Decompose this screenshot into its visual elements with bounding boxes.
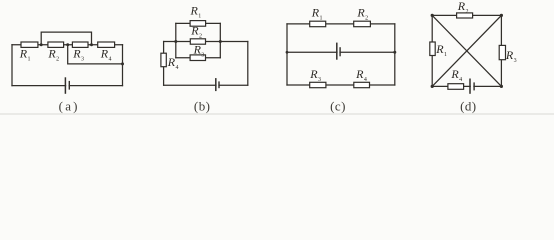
node between R3 and R4 (a) — [90, 43, 93, 46]
node between R1 and R2 (a) — [40, 43, 43, 46]
resistor R4 (c) — [354, 82, 370, 87]
battery (c) — [337, 43, 340, 60]
wire bottom (c) — [287, 84, 395, 86]
resistor R3 (a) — [72, 42, 88, 47]
wire bank left rail (b) — [175, 23, 177, 57]
node bottom-left corner (d) — [431, 85, 434, 88]
wire right rail (a) — [122, 45, 124, 86]
wire right rail (c) — [394, 24, 396, 85]
node between R2 and R3 (a) — [66, 43, 69, 46]
resistor R3 (b) — [190, 55, 205, 61]
resistor R1 (d) — [430, 42, 435, 56]
node top-left corner (d) — [431, 14, 434, 17]
battery (b) — [216, 78, 219, 91]
wire top bus (a) — [12, 44, 123, 46]
node middle branch meets right rail (c) — [393, 51, 396, 54]
wire outer left rail (b) — [163, 42, 165, 86]
resistor R2 (c) — [354, 21, 371, 27]
resistor R3 (d) — [499, 45, 505, 59]
svg-text:(a): (a) — [59, 99, 78, 114]
wire right rail (d) — [500, 15, 502, 86]
node top-right corner (d) — [500, 14, 503, 17]
wire bank right rail (b) — [219, 23, 221, 57]
wire left rail (a) — [11, 45, 13, 86]
wire left rail (c) — [286, 24, 288, 85]
wire outer right rail (b) — [247, 42, 249, 86]
wire bottom (d) — [432, 85, 501, 87]
wire R3 row (b) — [176, 57, 221, 59]
resistor R4 (d) — [448, 84, 464, 90]
resistor R1 (a) — [21, 42, 38, 47]
resistor R1 (c) — [310, 21, 326, 27]
svg-text:(b): (b) — [194, 99, 210, 114]
wire diagonal TL to BR (d) — [432, 15, 501, 86]
resistor R2 (d) — [457, 13, 473, 18]
faint page artifact line at bottom — [0, 113, 554, 115]
resistor R2 (a) — [48, 42, 64, 47]
battery (a) — [65, 77, 69, 94]
wire bottom (b) — [164, 84, 248, 86]
wire top (c) — [287, 23, 395, 25]
node underpass meets right rail (a) — [121, 62, 124, 65]
resistor R2 (b) — [190, 39, 205, 44]
node right rail meets R2 row (b) — [219, 40, 222, 43]
wire top (d) — [432, 14, 501, 16]
wire middle branch (c) — [287, 51, 395, 53]
wire bottom (a) — [12, 85, 123, 87]
wire R1 row (b) — [176, 22, 221, 24]
node left rail meets R2 row (b) — [174, 40, 177, 43]
resistor R3 (c) — [310, 82, 326, 87]
svg-text:(c): (c) — [330, 99, 345, 114]
node middle branch meets left rail (c) — [286, 51, 289, 54]
resistor R1 (b) — [190, 21, 206, 27]
svg-text:(d): (d) — [460, 99, 476, 114]
resistor R4 (a) — [98, 42, 115, 47]
wire underpass from node between R2 R3 to right rail (a) — [68, 45, 123, 64]
wire R2 row extended (b) — [164, 41, 248, 43]
node bottom-right corner (d) — [500, 85, 503, 88]
wire bridge over R2 R3 (a) — [41, 32, 91, 45]
wire left rail (d) — [431, 15, 433, 86]
wire diagonal TR to BL (d) — [432, 15, 501, 86]
resistor R4 (b) — [161, 53, 166, 66]
battery (d) — [470, 79, 474, 94]
